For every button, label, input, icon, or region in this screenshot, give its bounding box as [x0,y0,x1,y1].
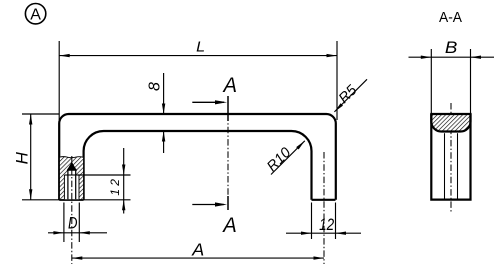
svg-text:A: A [191,240,204,260]
svg-text:12: 12 [108,176,122,196]
svg-text:A: A [30,7,41,24]
svg-text:A-A: A-A [439,10,462,26]
svg-text:H: H [12,151,31,164]
svg-text:A: A [221,213,236,237]
svg-text:8: 8 [147,82,164,91]
svg-text:12: 12 [319,215,334,234]
svg-text:D: D [68,214,78,233]
svg-text:L: L [196,38,205,55]
svg-text:B: B [445,38,458,57]
svg-text:A: A [222,73,237,97]
